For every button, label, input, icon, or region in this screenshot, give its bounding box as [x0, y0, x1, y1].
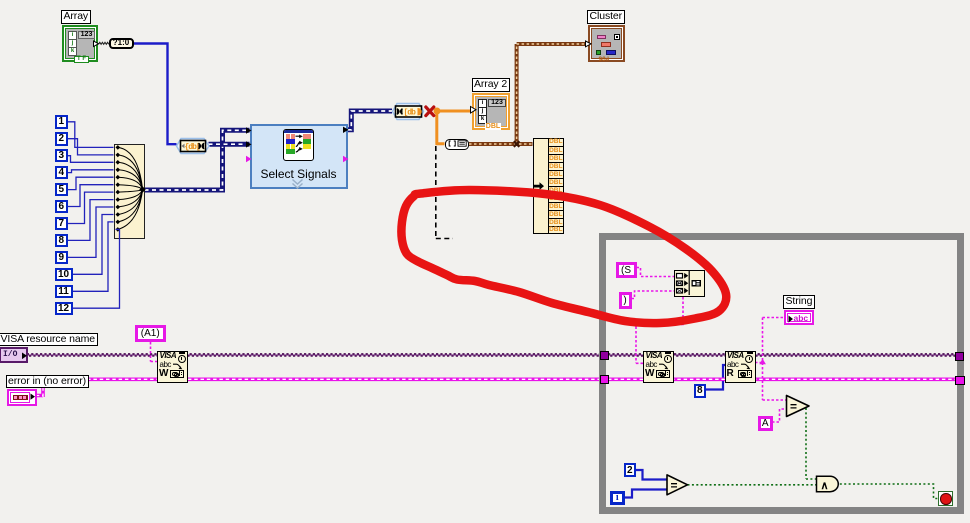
wire: brown cluster from U3 to unbundle block U4: [469, 142, 533, 146]
Array 2 input arrow: [471, 107, 477, 114]
red hand-drawn circle annotation: [401, 190, 726, 323]
wire: green boolean from AND gate to loop stop terminal: [840, 484, 938, 499]
numeric constant 3: [55, 149, 68, 163]
array indicator icon Array 2: [472, 93, 510, 130]
loop stop condition terminal: [938, 491, 954, 506]
AND gate: [817, 476, 839, 492]
numeric constant 5: [55, 183, 68, 197]
unbundle block U4 index arrow: [534, 182, 544, 190]
broken wire red X: [426, 107, 434, 116]
unbundle DBL block U4 cells: [548, 138, 564, 234]
Select Signals edge arrows: [246, 127, 349, 163]
wire: green boolean from equals T1 down to AND gate: [806, 408, 817, 479]
numeric constant 12: [55, 302, 73, 316]
orange wire junction dot: [434, 108, 441, 115]
Array indicator output arrow: [94, 41, 99, 47]
svg-text:=: =: [671, 478, 678, 492]
string constant (A1): [135, 325, 166, 343]
wire: constant 9 to funnel: [68, 207, 114, 257]
wire: blue numeric from ?1:0 node to U1: [133, 44, 177, 145]
array-to-cluster node U3: [445, 139, 470, 150]
VISA resource name I/O control: [0, 347, 28, 363]
wire: string dotted from (S constant to concatenate U5: [637, 268, 675, 277]
loop tunnel pink left: [600, 375, 609, 384]
wire: dynamic-data from U1 to Select Signals input 2: [209, 142, 250, 147]
wire: brown cluster branch up to Cluster indicator: [517, 44, 587, 144]
wire: constant 2 to funnel: [68, 139, 114, 155]
Cluster input arrow: [586, 41, 592, 47]
label Cluster: [587, 10, 625, 24]
cluster indicator icon: [588, 25, 626, 63]
wire: constant 7 to funnel: [68, 192, 114, 223]
wire: constant 10 to funnel: [73, 215, 114, 275]
wire: constant 12 to funnel (passes over funnel bottom): [73, 229, 120, 308]
label Array 2: [472, 78, 510, 92]
VISA Write node W2 (inside loop): [643, 351, 674, 383]
merge signals funnel block: [114, 144, 145, 239]
label String: [783, 295, 815, 309]
wire: blue numeric from iteration terminal i to equals T2: [625, 490, 668, 498]
while loop border: [599, 233, 964, 514]
numeric constant 10: [55, 268, 73, 282]
wire: constant 6 to funnel: [68, 185, 114, 207]
VISA Write node W1 (outside loop): [157, 351, 188, 383]
wire: string dotted from ) constant to concatenate U5: [632, 291, 675, 299]
numeric constant 2: [624, 463, 637, 478]
numeric constant 8: [55, 234, 68, 248]
wire: pink error cluster inside loop: [608, 377, 955, 381]
wire: string dotted from U5 output down to VISA Write 2 buffer: [636, 297, 683, 363]
label error in (no error): [6, 375, 89, 389]
string constant (S: [616, 262, 637, 279]
svg-text:∧: ∧: [821, 480, 829, 492]
string constant A: [758, 416, 773, 432]
array indicator icon Array: [62, 25, 98, 62]
wire: black dashed broken wire stub: [436, 146, 453, 239]
funnel input diamonds and merge curves: [116, 145, 146, 232]
convert-from-dynamic-data express node U2: [391, 102, 425, 121]
wire: orange DBL array junction drop to U3: [435, 111, 444, 144]
read buffer branch arrow: [759, 359, 766, 365]
wire: dynamic-data from merge-funnel to Select Signals input 1: [145, 130, 250, 190]
wire: boolean squiggle from Array indicator to ?1:0: [99, 42, 109, 44]
label for array indicator "Array": [61, 10, 91, 24]
wire: orange DBL array from junction to Array 2: [440, 110, 474, 113]
wire: constant 4 to funnel: [68, 170, 114, 173]
wire: string dotted from (A1) to VISA Write 1: [151, 342, 158, 362]
loop tunnel pink right: [955, 376, 965, 386]
error in cluster control: [7, 389, 37, 406]
concatenate strings node U5: [674, 270, 705, 298]
wire: constant 3 to funnel: [68, 156, 114, 163]
brown wire junction X: [514, 141, 520, 147]
iteration terminal i: [610, 491, 625, 506]
numeric constant 4: [55, 166, 68, 180]
String indicator: [784, 310, 814, 326]
wire: constant 5 to funnel: [68, 177, 114, 189]
wire: constant 11 to funnel: [73, 222, 114, 291]
loop tunnel purple right: [955, 352, 965, 362]
numeric constant 8 (byte count): [694, 384, 707, 398]
wire: purple VISA resource name inside loop: [608, 354, 955, 356]
equals node T2: [667, 475, 688, 495]
equals node T1: [787, 396, 810, 417]
unbundle DBL block U4 left column: [533, 138, 550, 234]
numeric constant 7: [55, 217, 68, 231]
loop tunnel purple left: [600, 351, 610, 360]
wire: string dotted from A constant to equals T1: [772, 409, 787, 422]
numeric constant 6: [55, 200, 68, 214]
wire: blue numeric from constant 2 to equals T2: [636, 470, 667, 480]
numeric constant 1: [55, 115, 68, 129]
wire: purple VISA resource name from I/O control to loop: [27, 354, 600, 356]
Select Signals expand chevron: [293, 180, 303, 189]
wire: constant 1 to funnel: [68, 122, 114, 148]
wire: dynamic-data from Select Signals output to U2: [348, 111, 393, 130]
numeric constant 9: [55, 251, 68, 265]
wire: constant 8 to funnel: [68, 200, 114, 241]
string constant ): [619, 292, 632, 309]
wire: blue numeric from constant 8 to VISA Read byte count: [706, 365, 726, 390]
wire: pink error cluster from error in control to loop: [36, 379, 600, 397]
Select Signals express VI: [250, 124, 348, 189]
numeric constant 11: [55, 285, 73, 299]
wire: string dotted VISA Read buffer to String indicator and equals T1: [755, 318, 787, 401]
numeric constant 2: [55, 132, 68, 146]
convert-to-dynamic-data express node U1: [175, 137, 211, 155]
wire: green boolean from equals T2 to AND gate: [688, 484, 817, 486]
VISA Read node R1 (inside loop): [725, 351, 756, 383]
label VISA resource name: [0, 333, 98, 347]
svg-text:=: =: [790, 400, 797, 414]
?1:0 boolean-to-number node: [109, 38, 134, 49]
